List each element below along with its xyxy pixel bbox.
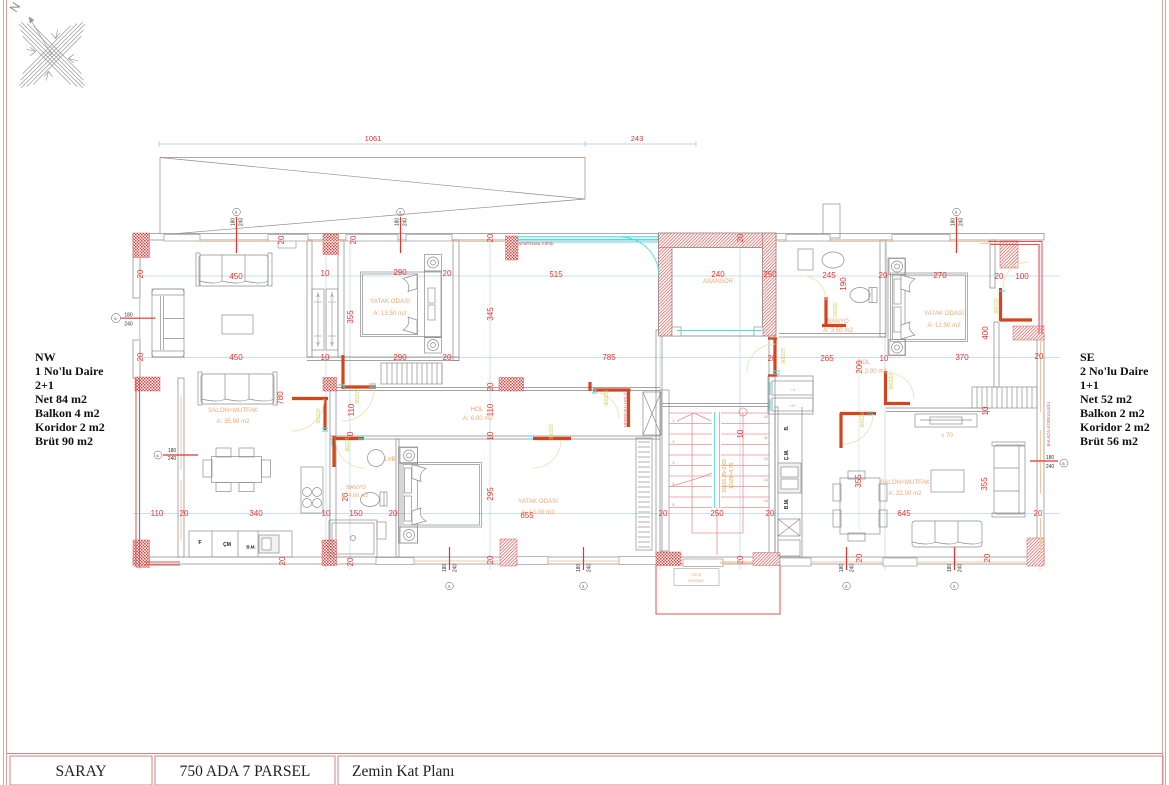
column stair bottom-right hatch [753,553,780,566]
right exterior wall lower [1037,334,1044,564]
stair outline verticals [691,413,693,533]
svg-text:295: 295 [486,487,495,501]
svg-text:20: 20 [136,352,145,361]
svg-text:B.: B. [784,425,790,431]
svg-text:MERDİVEN HOLÜ: MERDİVEN HOLÜ [623,393,628,428]
svg-text:515: 515 [549,270,563,279]
svg-text:20: 20 [1034,509,1043,518]
svg-text:10: 10 [981,406,990,415]
entrance window band top [518,236,658,238]
peach finish lines [140,242,1041,563]
svg-text:SE: SE [1080,350,1095,364]
svg-text:20: 20 [346,557,355,566]
svg-text:Brüt 56 m2: Brüt 56 m2 [1080,434,1138,448]
apt2 coffee table [931,470,964,492]
svg-text:2+1: 2+1 [35,378,54,392]
svg-text:750 ADA 7 PARSEL: 750 ADA 7 PARSEL [180,763,311,780]
svg-text:10: 10 [321,269,330,278]
entrance door arc [620,237,659,276]
dining table apt1 [203,448,271,492]
svg-text:1+1: 1+1 [1080,378,1099,392]
page border right double red line [1162,0,1164,785]
bedroom1 right wall [453,240,459,361]
living/balcony wall left [178,378,184,557]
svg-text:+40: +40 [789,403,797,408]
bed2 bottom (yatak odasi 13.00) [399,447,482,543]
apt2 corridor cabinets [772,381,813,411]
svg-text:PASPASI: PASPASI [688,579,704,583]
apt2 corridor cabinet outline [768,376,813,414]
svg-text:20: 20 [486,555,495,564]
svg-text:Net 84 m2: Net 84 m2 [35,392,87,406]
hall bottom wall [330,435,660,437]
column top x326 [323,234,339,255]
svg-text:180: 180 [124,313,133,319]
left exterior wall upper [133,234,140,299]
column hall left [323,378,337,392]
svg-text:180: 180 [442,564,448,573]
svg-text:BANYO: BANYO [346,485,366,491]
svg-text:240: 240 [239,218,245,227]
elevator door [677,330,762,332]
vermilion partition walls [292,288,1032,467]
svg-text:Koridor 2 m2: Koridor 2 m2 [35,420,105,434]
svg-text:20: 20 [278,556,287,565]
svg-text:2 No'lu Daire: 2 No'lu Daire [1080,364,1149,378]
svg-text:785: 785 [602,353,616,362]
svg-text:355: 355 [980,477,989,491]
svg-text:240: 240 [850,564,856,573]
svg-text:290: 290 [393,268,407,277]
svg-text:10: 10 [764,415,768,419]
svg-text:240: 240 [959,218,965,227]
column stair bottom-left [656,552,681,566]
apt2 sofa bottom [912,521,982,547]
svg-text:20: 20 [443,269,452,278]
svg-text:+3: +3 [791,387,796,392]
svg-text:A: 3.50 m2: A: 3.50 m2 [823,327,853,334]
svg-text:A: 13.50 m2: A: 13.50 m2 [373,310,407,317]
svg-text:APARTMAN GİRİŞİ: APARTMAN GİRİŞİ [519,241,554,246]
apt2 washbasin [822,252,844,268]
svg-text:A: 13.00 m2: A: 13.00 m2 [521,509,555,516]
svg-text:180: 180 [947,564,953,573]
svg-text:240: 240 [403,218,409,227]
svg-text:6.: 6. [114,317,117,321]
sofa living1 left (vertical) [152,289,184,357]
svg-text:370: 370 [955,353,969,362]
window sill boxes [278,240,296,248]
entrance canopy outline bottom [656,564,780,614]
apt2 corridor door walls [840,412,876,415]
small red labels [519,241,1051,446]
washbasin bath1 [368,450,385,467]
svg-text:20: 20 [768,354,777,363]
svg-text:B.M.: B.M. [246,545,255,550]
wardrobe corridor walls [307,240,312,357]
svg-text:20: 20 [136,269,145,278]
orange room labels [208,278,964,583]
column hall right [499,378,524,392]
apt2 toilet [850,288,877,303]
svg-text:240: 240 [124,322,133,328]
svg-text:HOL: HOL [471,406,484,413]
balcony2 door face [980,243,1000,245]
salon-hall door wall [292,397,328,400]
svg-text:A: 4.60 m2: A: 4.60 m2 [341,493,368,499]
doormat [674,569,719,586]
roof outline triangle [160,158,585,236]
apt2 kitchen sink [778,463,801,493]
apt2 bedroom bottom wall [886,407,990,409]
svg-text:250: 250 [763,270,777,279]
cyan windows [322,237,1005,446]
black small appliance labels [198,425,790,550]
svg-text:s 70: s 70 [941,432,953,439]
hatched blocks: top-left corner [133,233,1044,566]
svg-text:BANYO: BANYO [827,318,849,325]
svg-text:6.: 6. [1062,462,1065,466]
svg-text:d.: d. [845,585,848,589]
svg-text:d.: d. [235,211,238,215]
svg-text:3: 3 [673,461,675,465]
svg-text:14: 14 [764,499,768,503]
svg-text:20: 20 [983,553,992,562]
svg-text:SALON+MUTFAK: SALON+MUTFAK [880,479,931,486]
svg-text:450: 450 [229,353,243,362]
svg-text:Zemin Kat Planı: Zemin Kat Planı [352,763,455,780]
svg-text:20: 20 [1035,352,1044,361]
elevator inner outline [659,233,777,336]
door ticks [369,383,376,385]
bottom wall inner face peach [414,560,500,562]
svg-text:12: 12 [764,457,768,461]
bedroom2 top door wall [588,382,591,391]
svg-text:A: 2.00 m2: A: 2.00 m2 [857,368,887,375]
svg-text:11: 11 [764,436,768,440]
svg-text:5: 5 [673,503,675,507]
svg-text:1: 1 [673,419,675,423]
apt2 sofa right wall [992,442,1025,517]
svg-text:Ç.M.: Ç.M. [784,449,790,460]
wardrobe living1 corridor (hangers) [312,289,338,350]
svg-text:2: 2 [673,440,675,444]
svg-text:20: 20 [486,382,495,391]
sofa living1 top (3 seats) [196,253,272,286]
svg-text:1 No'lu Daire: 1 No'lu Daire [35,364,104,378]
column kitchen end bottom [322,540,337,566]
svg-text:17x28=4.76: 17x28=4.76 [729,463,735,489]
svg-text:Koridor 2 m2: Koridor 2 m2 [1080,420,1150,434]
svg-text:LVB: LVB [384,456,395,463]
svg-text:345: 345 [486,307,495,321]
svg-text:80/220: 80/220 [889,374,895,390]
svg-text:180: 180 [168,448,177,454]
apt2 bath door wall [824,297,827,324]
svg-text:Net 52 m2: Net 52 m2 [1080,392,1132,406]
blue grid dim lines [133,233,1060,570]
coffee table living1 [222,315,253,334]
svg-text:Brüt 90 m2: Brüt 90 m2 [35,434,93,448]
svg-text:10: 10 [322,509,331,518]
column bottom-left corner [133,540,150,566]
bottom exterior wall [133,557,1044,564]
svg-text:N: N [7,0,23,15]
rotated red dims [136,233,992,566]
svg-text:450: 450 [229,272,243,281]
svg-text:80/220: 80/220 [994,298,1000,314]
svg-text:20: 20 [766,509,775,518]
svg-text:180: 180 [395,218,401,227]
apt2 radiator [972,387,1037,408]
svg-text:240: 240 [587,564,593,573]
svg-text:70/220: 70/220 [833,302,839,318]
top exterior wall [133,234,1044,565]
elevator door jambs [672,327,681,336]
svg-text:SALON+MUTFAK: SALON+MUTFAK [208,407,259,414]
svg-text:20: 20 [995,272,1004,281]
elevator shaft hatched walls [659,233,777,336]
bathroom1 left wall / kitchen separator [330,391,336,558]
svg-text:180: 180 [839,564,845,573]
svg-text:F: F [198,540,202,546]
svg-text:6.: 6. [156,454,159,458]
svg-text:Balkon 4 m2: Balkon 4 m2 [35,406,100,420]
svg-text:290: 290 [393,353,407,362]
svg-text:240: 240 [453,564,459,573]
svg-text:A: 22.50 m2: A: 22.50 m2 [888,490,922,497]
pale door swing arcs [292,262,1029,468]
apt2 kitchen lower cab [778,519,800,536]
stair ladder left [660,390,669,551]
stair shaft left wall [656,330,662,557]
svg-text:20: 20 [879,271,888,280]
apt2 bath cabinet [798,249,813,270]
svg-text:180: 180 [231,218,237,227]
svg-text:20: 20 [855,553,864,562]
N arrow [29,17,52,55]
svg-text:90/220: 90/220 [549,424,555,440]
apt2 bathroom right wall [880,240,886,337]
column top x501 [506,236,519,260]
svg-text:20: 20 [486,233,495,242]
svg-text:180: 180 [1046,455,1055,461]
svg-text:d.: d. [399,211,402,215]
toilet bath1 [361,492,388,507]
svg-text:265: 265 [820,354,834,363]
balcony2 bottom column hatch [1013,326,1044,340]
svg-text:355: 355 [854,474,863,488]
bathroom1 right wall [396,439,399,557]
staircase [669,408,769,555]
svg-text:240: 240 [168,456,177,462]
title block [7,754,1163,785]
apt2 entry door wall [773,338,776,376]
svg-text:110: 110 [347,403,356,416]
svg-text:ASANSÖR: ASANSÖR [703,278,734,285]
radiator hall1 [381,363,442,384]
top dimension line 1061 / 243 [159,141,696,147]
left balcony railing [136,378,180,567]
svg-text:HOL: HOL [858,359,871,366]
svg-text:10: 10 [880,354,889,363]
stair top wall [662,403,769,405]
svg-text:d.: d. [955,211,958,215]
svg-text:90/220: 90/220 [781,348,787,364]
balcony2 door wall [999,288,1002,321]
svg-text:340: 340 [249,509,263,518]
svg-text:d.: d. [582,585,585,589]
svg-text:SARAY: SARAY [55,763,106,780]
stair break line [669,473,712,487]
hall top wall [336,387,660,389]
svg-text:10: 10 [321,353,330,362]
wardrobe2 (rung cabinet right of bed2) [636,438,652,550]
svg-text:190: 190 [839,277,848,291]
svg-text:80/220: 80/220 [345,436,351,452]
svg-text:YATAK ODASI: YATAK ODASI [518,498,558,505]
svg-text:A: 6.00 m2: A: 6.00 m2 [463,415,493,422]
svg-text:90/220: 90/220 [860,412,866,428]
svg-text:YATAK ODASI: YATAK ODASI [924,310,964,317]
svg-text:355: 355 [346,310,355,324]
bed3 apt2 [888,258,968,356]
apt2 kitchen column walls [775,407,778,557]
shaft X-box [643,392,661,435]
svg-text:4: 4 [673,482,675,486]
sofa salon1 (lower-left room) [198,372,277,405]
right balcony outline [987,242,1042,335]
column bottom mid hatch [500,539,517,566]
kitchen1 tall unit + cooktop [301,467,323,513]
bedroom2 bottom door wall [533,437,571,440]
svg-text:243: 243 [631,134,644,143]
stair up arrow triangle [677,413,711,421]
column balcony left top [135,377,160,391]
svg-text:100: 100 [1015,272,1029,281]
svg-text:90/220: 90/220 [604,390,610,406]
stair mid cyan rails [715,412,720,508]
apt2 bathroom bottom wall [779,333,886,335]
apt2 dining table [833,471,887,541]
svg-text:YATAK ODASI: YATAK ODASI [370,298,410,305]
svg-text:110: 110 [151,509,164,518]
svg-text:240: 240 [958,564,964,573]
svg-text:1061: 1061 [365,134,382,143]
svg-text:Balkon 2 m2: Balkon 2 m2 [1080,406,1145,420]
svg-text:BALKON KORKULUĞU: BALKON KORKULUĞU [1046,402,1051,447]
svg-text:20: 20 [659,509,668,518]
left wall inner peach [139,246,141,376]
svg-text:20: 20 [736,233,745,242]
svg-text:250: 250 [710,509,724,518]
svg-text:MERMER BASAMAK: MERMER BASAMAK [720,561,755,565]
svg-text:GİRİŞ: GİRİŞ [691,572,702,577]
apt2 shaft above top wall [823,204,840,238]
svg-text:150: 150 [349,509,363,518]
kitchen1 counter [189,531,292,557]
svg-text:B.M.: B.M. [784,498,790,509]
balcony2 top column hatch [1000,241,1018,268]
bed1 top (yatak odasi 13.50) [361,255,442,354]
svg-text:d.: d. [953,585,956,589]
svg-text:90/220: 90/220 [355,388,361,404]
svg-text:270: 270 [933,271,947,280]
svg-text:A: 35.60 m2: A: 35.60 m2 [216,418,250,425]
svg-text:240: 240 [1046,464,1055,470]
svg-text:180: 180 [951,218,957,227]
apt2 corridor cab door ticks [769,382,771,395]
svg-text:245: 245 [822,271,836,280]
svg-text:10: 10 [486,431,495,440]
right wall [1040,340,1042,412]
black NW text block [35,350,1150,448]
svg-text:400: 400 [981,326,990,340]
svg-text:180: 180 [576,564,582,573]
column bottom-right corner hatch [1027,538,1044,566]
north compass [0,0,116,119]
svg-text:d.: d. [448,585,451,589]
svg-text:645: 645 [897,509,911,518]
svg-text:ÇM: ÇM [223,542,231,548]
svg-text:NW: NW [35,350,56,364]
bath1 door wall [336,437,364,440]
apt2 tv bench [915,414,977,427]
hall west door wall [342,385,376,388]
svg-text:13: 13 [764,478,768,482]
svg-text:20: 20 [389,509,398,518]
svg-text:90/220: 90/220 [316,408,322,424]
svg-text:16x16.25=2.60: 16x16.25=2.60 [722,459,728,492]
svg-text:10: 10 [736,429,745,438]
svg-text:780: 780 [276,391,285,405]
red dimension texts row1 [151,268,1044,520]
svg-text:A: 12.50 m2: A: 12.50 m2 [927,322,961,329]
olive door labels [316,298,1000,452]
svg-text:20: 20 [180,509,189,518]
stair shaft right wall [769,336,775,557]
svg-text:20: 20 [349,235,358,244]
svg-text:20: 20 [443,353,452,362]
left living wall [180,395,182,470]
shower bath1 lower [329,520,386,557]
svg-text:20: 20 [277,235,286,244]
window markers [112,208,1069,590]
bedroom3 right wall [990,240,995,288]
